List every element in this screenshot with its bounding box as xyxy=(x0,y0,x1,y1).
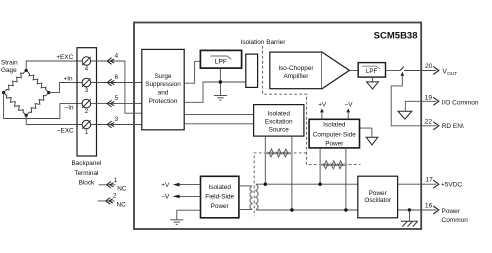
svg-text:2: 2 xyxy=(113,193,117,200)
svg-text:Power: Power xyxy=(369,190,388,197)
svg-text:+V: +V xyxy=(318,101,327,108)
svg-text:+5VDC: +5VDC xyxy=(441,181,462,188)
svg-text:Source: Source xyxy=(269,126,290,133)
svg-text:I/O Common: I/O Common xyxy=(442,99,479,106)
svg-text:LPF: LPF xyxy=(366,68,378,75)
svg-text:Field-Side: Field-Side xyxy=(205,194,234,201)
svg-text:Excitation: Excitation xyxy=(265,118,293,125)
svg-text:Oscillator: Oscillator xyxy=(364,197,392,204)
svg-text:NC: NC xyxy=(117,201,127,208)
svg-text:Power: Power xyxy=(211,203,230,210)
svg-text:Surge: Surge xyxy=(154,73,171,80)
svg-text:SCM5B38: SCM5B38 xyxy=(374,30,418,41)
svg-text:20: 20 xyxy=(425,63,433,70)
svg-text:Block: Block xyxy=(79,180,95,187)
svg-text:−V: −V xyxy=(161,194,170,201)
svg-text:Iso-Chopper: Iso-Chopper xyxy=(278,65,314,72)
svg-text:17: 17 xyxy=(426,177,434,184)
svg-text:Isolated: Isolated xyxy=(268,110,291,117)
svg-text:Gage: Gage xyxy=(1,67,17,74)
svg-text:19: 19 xyxy=(425,95,433,102)
svg-text:Terminal: Terminal xyxy=(74,170,98,177)
svg-text:Power: Power xyxy=(442,208,461,215)
svg-text:Computer-Side: Computer-Side xyxy=(313,132,356,139)
svg-text:Common: Common xyxy=(442,217,469,224)
svg-text:Isolated: Isolated xyxy=(209,184,232,191)
svg-text:Isolated: Isolated xyxy=(323,121,346,128)
svg-text:NC: NC xyxy=(117,185,127,192)
svg-text:4: 4 xyxy=(115,53,119,60)
svg-text:Backpanel: Backpanel xyxy=(71,160,101,167)
svg-text:+V: +V xyxy=(161,182,170,189)
svg-text:−In: −In xyxy=(65,105,75,112)
svg-text:Amplifier: Amplifier xyxy=(283,73,309,80)
svg-text:−EXC: −EXC xyxy=(57,128,74,135)
svg-text:5: 5 xyxy=(115,95,119,102)
svg-text:−V: −V xyxy=(345,101,354,108)
svg-text:+EXC: +EXC xyxy=(56,54,73,61)
svg-text:Strain: Strain xyxy=(1,59,18,66)
svg-text:16: 16 xyxy=(425,203,433,210)
svg-text:Protection: Protection xyxy=(149,98,178,105)
svg-text:Power: Power xyxy=(325,141,344,148)
svg-text:RD EN\: RD EN\ xyxy=(442,123,464,130)
svg-text:Suppression: Suppression xyxy=(145,81,181,88)
svg-text:and: and xyxy=(158,90,169,97)
svg-text:22: 22 xyxy=(425,118,433,125)
svg-text:Isolation Barrier: Isolation Barrier xyxy=(241,39,287,46)
svg-text:LPF: LPF xyxy=(215,59,227,66)
svg-text:+In: +In xyxy=(64,75,74,82)
svg-text:1: 1 xyxy=(114,177,118,184)
svg-text:6: 6 xyxy=(115,74,119,81)
svg-text:3: 3 xyxy=(115,116,119,123)
